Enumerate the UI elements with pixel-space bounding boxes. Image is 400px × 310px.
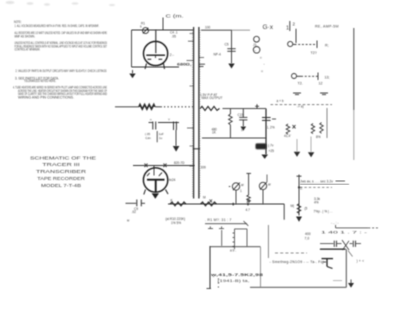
- svg-text:R;: R;: [325, 44, 329, 48]
- svg-text:8%: 8%: [316, 135, 321, 139]
- svg-text:=: =: [260, 56, 262, 60]
- svg-text:C5: C5: [225, 43, 229, 47]
- svg-text:400: 400: [305, 232, 311, 236]
- svg-text:WIRING AND PIN CONNECTIONS.: WIRING AND PIN CONNECTIONS.: [18, 96, 74, 100]
- svg-text:1 40 1 . 7 : -: 1 40 1 . 7 : -: [321, 231, 367, 235]
- svg-text:1% 5%: 1% 5%: [171, 221, 181, 225]
- svg-text:MAX OUTPUT: MAX OUTPUT: [202, 96, 223, 100]
- svg-text:TOLERANCES NOTED HERE.: TOLERANCES NOTED HERE.: [24, 79, 56, 83]
- svg-text:1, 2%: 1, 2%: [267, 125, 275, 129]
- svg-text:SCHEMATIC OF THE: SCHEMATIC OF THE: [30, 155, 96, 160]
- svg-text:Jws av, s . . . sec 3.2v: Jws av, s . . . sec 3.2v: [300, 180, 333, 184]
- svg-text:1. ALL VOLTAGES MEASURED WITH: 1. ALL VOLTAGES MEASURED WITH A VTVM. RE…: [15, 24, 100, 28]
- svg-text:820-7D: 820-7D: [174, 161, 185, 165]
- svg-text:4x24: 4x24: [169, 178, 176, 182]
- svg-text:a b .: a b .: [230, 249, 236, 253]
- svg-text:G·x: G·x: [263, 24, 274, 31]
- svg-text:1: 1: [286, 26, 289, 32]
- svg-text:MMF AS SHOWN.: MMF AS SHOWN.: [15, 34, 36, 38]
- svg-text:=: =: [261, 70, 263, 74]
- svg-text:7,0: 7,0: [305, 237, 310, 241]
- svg-text:- Smethwg-2N1O9 - -- Ta-. Fq|: - Smethwg-2N1O9 - -- Ta-. Fq|: [270, 260, 325, 264]
- svg-text:. R1 M?: 31 : 7: . R1 M?: 31 : 7: [205, 218, 232, 222]
- svg-text:R1: R1: [141, 22, 145, 26]
- svg-text:TRANSCRIBER: TRANSCRIBER: [36, 169, 86, 174]
- svg-text:T2.: T2.: [298, 82, 303, 86]
- svg-text:13;: 13;: [325, 76, 330, 80]
- svg-text:RE, AMP-5M: RE, AMP-5M: [315, 25, 339, 29]
- svg-text:w,41,5-7.5K2,98: w,41,5-7.5K2,98: [209, 272, 264, 277]
- svg-text:(5: (5: [305, 207, 308, 211]
- svg-text:C (m.: C (m.: [166, 13, 184, 18]
- svg-text:Y: Y: [168, 118, 170, 122]
- svg-text:CONTROL AT MINIMUM.: CONTROL AT MINIMUM.: [15, 48, 41, 52]
- svg-text:100: 100: [205, 26, 211, 30]
- svg-text:1u: 1u: [159, 136, 163, 140]
- svg-text:T2?: T2?: [311, 51, 317, 55]
- svg-text:12: 12: [319, 82, 323, 86]
- svg-text:M|: M|: [291, 204, 295, 208]
- svg-text:.05: .05: [172, 35, 177, 39]
- svg-text:TAPE RECORDER: TAPE RECORDER: [37, 176, 85, 181]
- svg-text:4.7: 4.7: [246, 208, 251, 212]
- svg-text:+25: +25: [269, 149, 275, 153]
- svg-text:680Ω,: 680Ω,: [177, 62, 192, 66]
- svg-text:1: 1: [240, 189, 242, 193]
- svg-text:~: ~: [254, 49, 256, 53]
- svg-text:309: 309: [201, 166, 207, 170]
- svg-text:2. VALUES OF PARTS IN OUTPUT: 2. VALUES OF PARTS IN OUTPUT CIRCUITS MA…: [16, 69, 108, 73]
- svg-text:41,4': 41,4': [284, 134, 291, 138]
- svg-text:) + <: ) + <: [357, 259, 365, 263]
- svg-text:-> a): -> a): [297, 105, 304, 109]
- svg-text:7%p . | % | . .: 7%p . | % | . .: [314, 210, 333, 214]
- svg-text:M: M: [203, 196, 206, 200]
- svg-text:MODEL 7-T-4B: MODEL 7-T-4B: [41, 183, 81, 188]
- svg-text:a + b: a + b: [277, 99, 284, 103]
- svg-text:TRACER III: TRACER III: [42, 162, 80, 167]
- svg-text:(-7v: (-7v: [268, 143, 274, 147]
- svg-text:1: 1: [241, 128, 243, 132]
- svg-text:NP-4: NP-4: [214, 53, 221, 57]
- svg-text:C15: C15: [238, 113, 244, 117]
- svg-text:4%: 4%: [314, 201, 319, 205]
- svg-text:- .. : -: - .. : -: [331, 221, 338, 225]
- svg-text:(1941-B) ta,: (1941-B) ta,: [218, 278, 250, 283]
- svg-text:Cdn: Cdn: [145, 136, 151, 140]
- svg-text:2←: 2←: [170, 53, 175, 57]
- svg-text:J1: J1: [253, 43, 257, 47]
- svg-text:.02: .02: [132, 210, 137, 214]
